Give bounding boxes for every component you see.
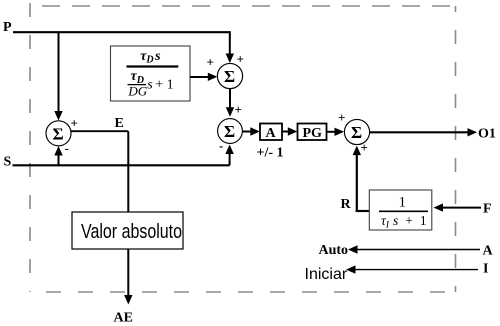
wire F input <box>442 207 481 209</box>
svg-text:Σ: Σ <box>224 122 235 141</box>
svg-text:+: + <box>361 140 368 155</box>
wire output O1 <box>370 131 468 133</box>
svg-text:A: A <box>483 243 494 258</box>
wire summer S2 to summer S3 <box>229 89 231 108</box>
dashed boundary top <box>30 5 456 7</box>
block derivative TD <box>111 46 191 101</box>
wire R up to summer S4 <box>356 154 358 212</box>
summer S1 <box>46 121 71 146</box>
svg-text:F: F <box>483 201 492 216</box>
svg-text:Valor absoluto: Valor absoluto <box>81 221 182 243</box>
wire S branch up to summer S1 <box>58 154 60 165</box>
svg-text:AE: AE <box>114 311 133 326</box>
svg-text:A: A <box>266 126 277 141</box>
svg-text:Σ: Σ <box>224 67 235 86</box>
svg-text:-: - <box>65 141 69 156</box>
svg-text:+: + <box>235 102 242 117</box>
wire P horizontal <box>13 31 231 33</box>
wire P down to summer S2 <box>229 32 231 54</box>
block A <box>260 124 282 141</box>
block integral TI <box>369 190 432 230</box>
svg-text:E: E <box>115 116 124 131</box>
wire E from summer S1 <box>71 130 129 132</box>
wire block I to R corner <box>356 210 370 212</box>
wire derivative block to summer S2 <box>190 76 209 78</box>
dashed boundary bottom <box>30 291 456 293</box>
svg-text:S: S <box>4 155 12 170</box>
wire summer S3 to block A <box>242 131 251 133</box>
wire S corner up to summer S3 <box>229 152 231 165</box>
svg-text:Σ: Σ <box>53 125 64 144</box>
svg-text:+/- 1: +/- 1 <box>257 146 284 161</box>
svg-text:PG: PG <box>303 126 323 141</box>
summer S3 <box>218 119 243 144</box>
wire Auto <box>357 249 480 251</box>
svg-text:DG: DG <box>127 84 147 99</box>
summer S4 <box>344 119 369 144</box>
wire S horizontal <box>13 164 230 166</box>
summer S2 <box>217 63 242 88</box>
svg-text:+: + <box>338 110 345 125</box>
block PG <box>298 124 327 141</box>
svg-text:O1: O1 <box>478 127 496 142</box>
svg-text:P: P <box>3 20 12 35</box>
svg-text:+: + <box>237 52 244 67</box>
svg-text:1: 1 <box>399 195 407 211</box>
dashed boundary right <box>455 6 457 292</box>
wire E vertical down to AE <box>127 131 129 296</box>
svg-text:Iniciar: Iniciar <box>305 266 348 283</box>
wire Iniciar <box>355 269 478 271</box>
wire block PG to summer S4 <box>327 131 336 133</box>
wire block A to block PG <box>282 131 289 133</box>
svg-text:+: + <box>207 55 214 70</box>
dashed boundary left <box>29 3 31 292</box>
svg-text:R: R <box>341 197 352 212</box>
block valor absoluto <box>72 212 183 249</box>
svg-text:I: I <box>483 262 488 277</box>
wire P branch down to summer S1 <box>58 32 60 112</box>
svg-text:+: + <box>71 116 78 131</box>
svg-text:s+1: s+1 <box>147 78 173 93</box>
svg-text:Auto: Auto <box>319 243 349 258</box>
